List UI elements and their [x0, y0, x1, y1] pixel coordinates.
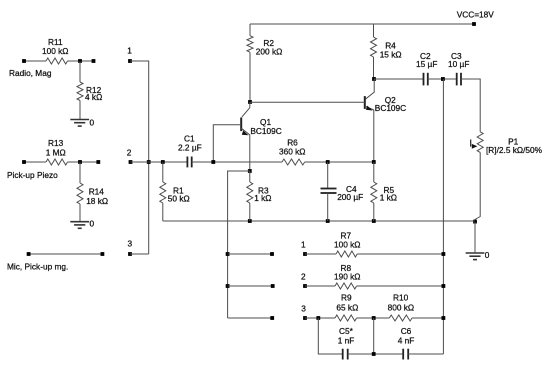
svg-text:2.2 µF: 2.2 µF — [178, 142, 202, 152]
svg-text:R9: R9 — [341, 293, 352, 303]
junction Q1 collector — [248, 100, 252, 104]
svg-text:Radio, Mag: Radio, Mag — [9, 68, 52, 78]
wire Q1 collector to Q2 base — [250, 101, 365, 103]
junction stub B — [226, 284, 230, 288]
svg-text:2: 2 — [301, 272, 306, 282]
wire mic input — [29, 253, 103, 255]
svg-text:3: 3 — [301, 304, 306, 314]
wire P1 bottom — [475, 152, 480, 222]
terminal stub A — [270, 252, 274, 256]
junction R3 bottom — [248, 219, 252, 223]
svg-text:190 kΩ: 190 kΩ — [334, 272, 361, 282]
junction Q1 base node — [211, 160, 215, 164]
wire C3 to P1 — [461, 79, 480, 132]
capacitor C5 — [342, 349, 344, 360]
wire node1 to bus — [130, 61, 149, 254]
resistor R11 — [24, 60, 46, 62]
capacitor C3 — [456, 73, 458, 86]
wire to ground — [474, 222, 476, 252]
junction R4/Q2 collector — [372, 77, 376, 81]
svg-text:[R]/2.5 kΩ/50%: [R]/2.5 kΩ/50% — [486, 145, 543, 155]
terminal stub C — [270, 316, 274, 320]
wire C1 to R6 — [192, 161, 282, 163]
resistor R6 — [282, 159, 305, 165]
junction C5 top — [316, 316, 320, 320]
svg-text:10 µF: 10 µF — [448, 59, 469, 69]
svg-text:1 kΩ: 1 kΩ — [254, 193, 271, 203]
junction R13/R14 — [78, 160, 82, 164]
junction R5 bottom — [372, 219, 376, 223]
junction R9/R10 — [372, 316, 376, 320]
junction R10 bus — [442, 316, 446, 320]
svg-text:R14: R14 — [89, 187, 105, 197]
junction input bus row2 — [147, 160, 151, 164]
potentiometer P1 — [477, 132, 483, 153]
junction ground node — [473, 220, 477, 224]
svg-text:0: 0 — [485, 250, 490, 260]
svg-text:1: 1 — [301, 240, 306, 250]
terminal R11 right — [92, 59, 96, 63]
wire stub B — [228, 285, 273, 287]
resistor R3 — [249, 171, 251, 182]
node VCC rail — [250, 23, 474, 25]
resistor R12 — [79, 61, 81, 82]
wire stub C — [228, 317, 273, 319]
wire R9R10 junction down — [373, 318, 375, 354]
capacitor C1 — [186, 157, 188, 168]
resistor R4 — [373, 24, 375, 37]
junction R1 top — [161, 160, 165, 164]
transistor Q1 — [240, 118, 242, 132]
junction Q2 emitter/R5 — [372, 160, 376, 164]
wire emitter branch — [228, 171, 250, 318]
svg-text:100 kΩ: 100 kΩ — [42, 46, 69, 56]
svg-text:65 kΩ: 65 kΩ — [336, 302, 358, 312]
svg-text:R10: R10 — [393, 293, 409, 303]
svg-text:4 nF: 4 nF — [398, 336, 415, 346]
ground right — [466, 252, 485, 254]
capacitor C4 — [327, 162, 329, 189]
svg-text:1: 1 — [127, 46, 132, 56]
junction C4 bottom — [326, 219, 330, 223]
svg-text:1 nF: 1 nF — [338, 336, 355, 346]
terminal mic left — [27, 252, 31, 256]
terminal R13 left — [22, 160, 26, 164]
svg-text:100 kΩ: 100 kΩ — [334, 240, 361, 250]
svg-text:800 kΩ: 800 kΩ — [388, 302, 415, 312]
wire collector to C2 — [374, 78, 424, 80]
svg-text:BC109C: BC109C — [375, 103, 406, 113]
svg-text:200 kΩ: 200 kΩ — [256, 47, 282, 57]
svg-text:1 MΩ: 1 MΩ — [46, 147, 66, 157]
junction C2/C3 — [441, 77, 445, 81]
resistor R14 — [79, 162, 81, 183]
resistor R7 — [305, 253, 336, 255]
svg-text:Pick-up Piezo: Pick-up Piezo — [7, 170, 58, 180]
svg-text:0: 0 — [90, 118, 95, 128]
svg-text:1 kΩ: 1 kΩ — [380, 192, 397, 202]
terminal R11 left — [22, 59, 26, 63]
capacitor C6 — [402, 349, 404, 360]
resistor R9 — [305, 317, 335, 319]
resistor R2 — [249, 24, 251, 36]
wire C5 to C6 — [348, 353, 404, 355]
wire ground rail — [163, 220, 475, 222]
wire Q1 base — [213, 125, 241, 162]
resistor R13 — [24, 161, 46, 163]
transistor Q2 — [364, 96, 366, 109]
svg-text:360 kΩ: 360 kΩ — [279, 147, 306, 157]
junction C5/C6 — [372, 352, 376, 356]
junction stub A — [226, 252, 230, 256]
svg-text:15 kΩ: 15 kΩ — [380, 49, 402, 59]
terminal mic right — [101, 252, 105, 256]
junction R11/R12 — [78, 59, 82, 63]
junction R7 bus — [442, 252, 446, 256]
wire node3 to bus — [130, 253, 149, 255]
wire C5 branch down — [318, 318, 342, 354]
svg-text:BC109C: BC109C — [250, 126, 281, 136]
resistor R1 — [162, 162, 164, 182]
ground R14 — [70, 221, 89, 223]
svg-text:200 µF: 200 µF — [337, 192, 363, 202]
svg-text:2: 2 — [127, 148, 132, 158]
terminal R13 right — [96, 160, 100, 164]
wire output bus — [442, 79, 444, 354]
svg-text:VCC=18V: VCC=18V — [457, 9, 495, 19]
svg-text:4 kΩ: 4 kΩ — [85, 92, 102, 102]
junction C4 top — [326, 160, 330, 164]
svg-text:15 µF: 15 µF — [416, 59, 437, 69]
svg-text:18 kΩ: 18 kΩ — [86, 196, 108, 206]
resistor R10 — [389, 315, 412, 321]
terminal stub B — [271, 284, 275, 288]
wire C2 to C3 — [428, 78, 457, 80]
resistor R5 — [373, 162, 375, 182]
terminal VCC — [472, 22, 476, 26]
ground R12 — [70, 119, 89, 121]
resistor R8 — [305, 285, 335, 287]
svg-text:3: 3 — [128, 239, 133, 249]
wire C6 to bus — [408, 353, 443, 355]
svg-text:Mic, Pick-up mg.: Mic, Pick-up mg. — [7, 262, 68, 272]
svg-text:50 kΩ: 50 kΩ — [168, 193, 190, 203]
junction Q1 emitter — [248, 169, 252, 173]
svg-text:0: 0 — [90, 218, 95, 228]
wire stub A — [228, 253, 272, 255]
junction R8 bus — [442, 284, 446, 288]
wire row2 left — [131, 161, 188, 163]
capacitor C2 — [423, 73, 425, 86]
